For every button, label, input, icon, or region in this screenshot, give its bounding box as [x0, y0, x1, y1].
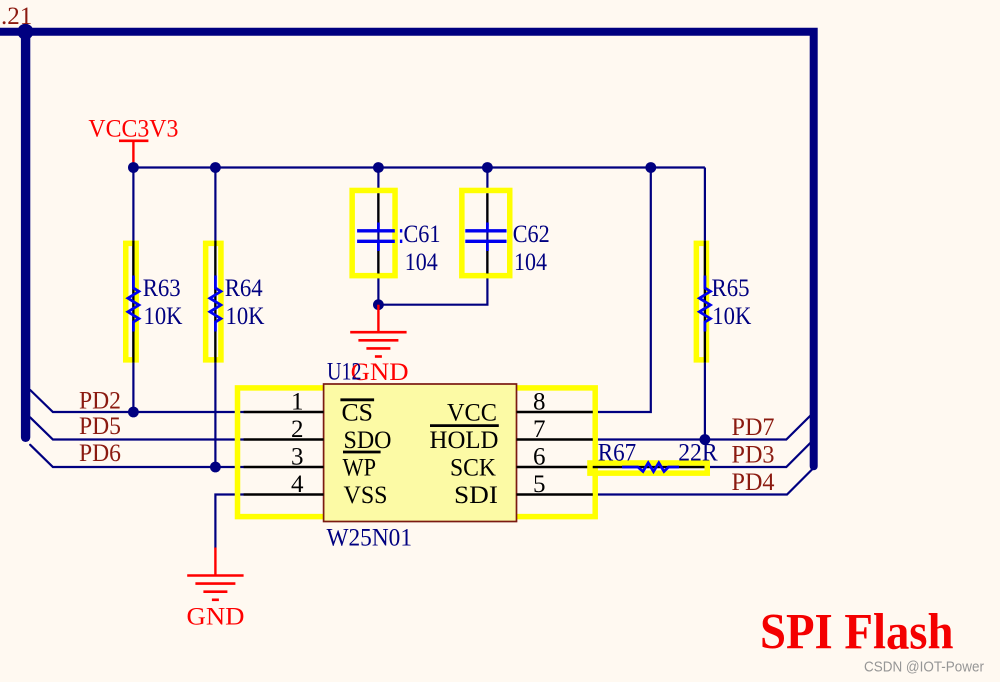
pin name SDI: [454, 482, 498, 509]
pin 3: [244, 444, 324, 471]
svg-text:HOLD: HOLD: [430, 427, 499, 454]
net label PD2: [79, 387, 121, 414]
wire C61 branch: [377, 168, 379, 305]
net label PD3: [732, 441, 775, 468]
svg-text:SDO: SDO: [344, 427, 392, 454]
svg-text:R64: R64: [225, 275, 263, 302]
svg-text:7: 7: [533, 416, 546, 443]
svg-text:GND: GND: [187, 604, 245, 631]
junction rail 1: [128, 162, 139, 173]
wire R63 branch: [132, 168, 134, 413]
bus left: [21, 32, 30, 438]
junction C61 gnd: [373, 299, 384, 310]
pin 8: [517, 389, 593, 416]
svg-text:22R: 22R: [678, 439, 718, 466]
junction rail 4: [482, 162, 493, 173]
svg-text:PD6: PD6: [79, 440, 121, 467]
IC U12 body: [324, 384, 517, 522]
net label PD5: [79, 413, 121, 440]
resistor R65: [696, 241, 751, 363]
ground pin4: [187, 548, 245, 631]
svg-text:W25N01: W25N01: [327, 525, 413, 552]
net label PD7: [732, 414, 775, 441]
svg-text:PD5: PD5: [79, 413, 121, 440]
svg-text:PD2: PD2: [79, 387, 121, 414]
svg-text:10K: 10K: [712, 303, 751, 330]
svg-text:CS: CS: [342, 399, 374, 426]
capacitor C62: [462, 190, 550, 275]
wire PD5: [30, 417, 243, 439]
svg-text:WP: WP: [343, 454, 377, 481]
wire R64 branch: [214, 168, 216, 468]
junction rail 3: [373, 162, 384, 173]
svg-text:PD4: PD4: [732, 469, 775, 496]
svg-text:U12: U12: [327, 359, 362, 386]
svg-text:PD3: PD3: [732, 441, 775, 468]
watermark: [864, 659, 984, 675]
svg-text:6: 6: [533, 444, 546, 471]
wire pin4 to ground: [215, 495, 243, 549]
svg-text:2: 2: [291, 416, 304, 443]
pin name SDO: [344, 427, 392, 454]
pin 2: [244, 416, 324, 443]
bus top and right: [0, 32, 814, 467]
pin 1: [244, 389, 324, 416]
resistor R63: [126, 241, 183, 363]
svg-text:10K: 10K: [144, 303, 183, 330]
title SPI Flash: [760, 604, 954, 660]
svg-text:.21: .21: [1, 3, 32, 30]
svg-text:3: 3: [291, 444, 304, 471]
svg-text:SPI Flash: SPI Flash: [760, 604, 954, 660]
svg-text:CSDN @IOT-Power: CSDN @IOT-Power: [864, 659, 984, 675]
svg-text:1: 1: [291, 389, 304, 416]
wire PD6: [30, 445, 243, 467]
svg-text:SDI: SDI: [454, 482, 498, 509]
pin name WP: [343, 452, 381, 481]
svg-text:8: 8: [533, 389, 546, 416]
svg-text:5: 5: [533, 471, 546, 498]
wire C62 branch: [378, 168, 487, 305]
pin name CS: [340, 399, 374, 426]
svg-text:R67: R67: [598, 439, 637, 466]
label .21: [1, 3, 32, 30]
pin name SCK: [450, 454, 496, 481]
net label PD6: [79, 440, 121, 467]
ground C61: [350, 305, 408, 386]
junction top-left: [17, 24, 33, 40]
junction rail 5: [645, 162, 656, 173]
net label PD4: [732, 469, 775, 496]
svg-text:R65: R65: [712, 275, 750, 302]
resistor R64: [206, 241, 265, 363]
wire vcc rail: [133, 166, 705, 168]
power VCC3V3: [88, 116, 178, 168]
wire PD3: [708, 442, 811, 467]
wire PD7: [593, 415, 811, 439]
pin name VSS: [344, 482, 388, 509]
pin 6: [517, 444, 709, 471]
svg-text:C61: C61: [404, 221, 441, 248]
svg-text:10K: 10K: [226, 303, 265, 330]
IC U12 selection highlight box: [238, 388, 596, 517]
junction PD2: [128, 407, 139, 418]
wire PD4: [593, 470, 812, 495]
junction rail 2: [210, 162, 221, 173]
capacitor C61: [352, 190, 440, 275]
svg-text:VSS: VSS: [344, 482, 388, 509]
junction PD7: [700, 434, 711, 445]
pin 4: [244, 471, 324, 498]
pin 7: [517, 416, 593, 443]
svg-text:R63: R63: [143, 275, 181, 302]
value W25N01: [327, 525, 413, 552]
svg-text:SCK: SCK: [450, 454, 496, 481]
junction PD6: [210, 462, 221, 473]
svg-text:104: 104: [514, 249, 547, 276]
pin name VCC: [447, 399, 497, 426]
designator U12: [327, 359, 362, 386]
resistor R67: [590, 439, 718, 473]
svg-text:VCC3V3: VCC3V3: [88, 116, 178, 143]
wire R65 branch: [704, 168, 706, 440]
svg-text:PD7: PD7: [732, 414, 775, 441]
svg-text:4: 4: [291, 471, 304, 498]
svg-text:VCC: VCC: [447, 399, 497, 426]
svg-text:104: 104: [405, 249, 438, 276]
wire PD2: [30, 390, 243, 412]
wire pin8 to rail: [593, 168, 651, 413]
pin name HOLD: [430, 426, 499, 454]
svg-text:C62: C62: [513, 221, 550, 248]
pin 5: [517, 471, 593, 498]
